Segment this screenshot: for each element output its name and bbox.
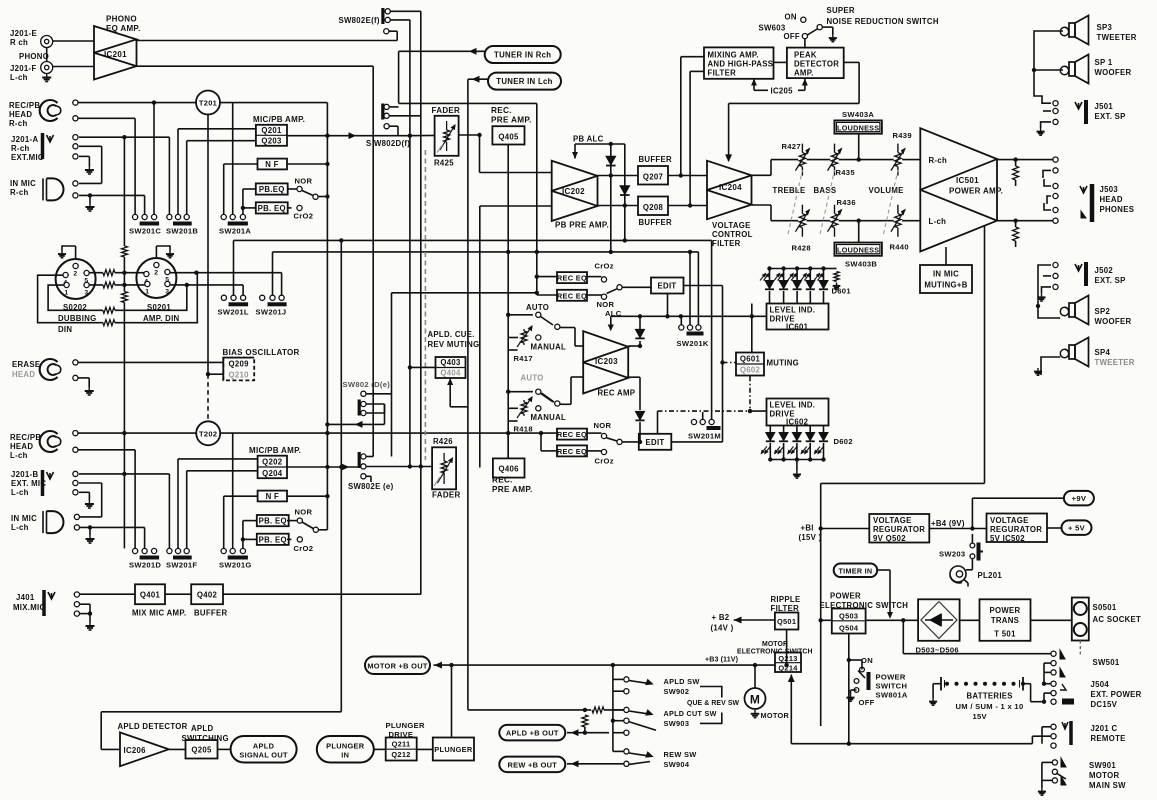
svg-text:IC501: IC501	[956, 176, 979, 185]
svg-text:IC205: IC205	[771, 87, 794, 96]
svg-text:HEAD: HEAD	[9, 110, 32, 119]
svg-text:+ 5V: + 5V	[1068, 524, 1086, 533]
svg-text:SW201D: SW201D	[129, 561, 161, 570]
svg-text:PB ALC: PB ALC	[573, 135, 604, 144]
svg-text:SW603: SW603	[759, 24, 786, 33]
svg-text:REC EQ: REC EQ	[557, 447, 587, 456]
svg-text:LEVEL IND.: LEVEL IND.	[770, 306, 816, 315]
svg-text:HEAD: HEAD	[10, 442, 33, 451]
svg-text:J201 C: J201 C	[1091, 724, 1118, 733]
svg-text:BUFFER: BUFFER	[639, 218, 672, 227]
svg-text:SW201B: SW201B	[166, 227, 198, 236]
svg-text:Q201: Q201	[261, 126, 282, 135]
svg-text:+ B2: + B2	[712, 613, 730, 622]
svg-text:SWITCH: SWITCH	[876, 682, 908, 691]
svg-text:DETECTOR: DETECTOR	[794, 60, 839, 69]
svg-text:R418: R418	[514, 425, 533, 434]
svg-text:2: 2	[154, 270, 158, 277]
svg-text:POWER AMP.: POWER AMP.	[949, 187, 1003, 196]
svg-text:OFF: OFF	[784, 32, 801, 41]
svg-text:REC/PB: REC/PB	[9, 101, 40, 110]
svg-text:SIGNAL OUT: SIGNAL OUT	[239, 750, 288, 759]
svg-text:SP4: SP4	[1095, 348, 1111, 357]
svg-text:1: 1	[145, 289, 149, 296]
svg-text:M: M	[750, 693, 760, 707]
svg-text:SP2: SP2	[1095, 307, 1111, 316]
svg-text:SW403B: SW403B	[845, 260, 877, 269]
svg-text:ERASE: ERASE	[12, 360, 40, 369]
svg-text:SW901: SW901	[1089, 761, 1116, 770]
svg-text:BATTERIES: BATTERIES	[967, 692, 1013, 701]
svg-text:PRE AMP.: PRE AMP.	[491, 116, 532, 125]
svg-text:SP 1: SP 1	[1095, 58, 1113, 67]
svg-text:SW203: SW203	[939, 550, 965, 559]
svg-text:VOLTAGE: VOLTAGE	[990, 516, 1029, 525]
svg-text:Q212: Q212	[391, 750, 410, 759]
svg-text:SW802E(f): SW802E(f)	[339, 16, 380, 25]
svg-text:CrO2: CrO2	[294, 544, 314, 553]
svg-text:R428: R428	[792, 244, 811, 253]
svg-text:J504: J504	[1091, 680, 1110, 689]
svg-text:AUTO: AUTO	[526, 303, 549, 312]
svg-text:SW201A: SW201A	[219, 227, 251, 236]
svg-text:BIAS OSCILLATOR: BIAS OSCILLATOR	[223, 348, 300, 357]
svg-text:REC EQ: REC EQ	[557, 430, 587, 439]
svg-text:REC EQ: REC EQ	[557, 274, 587, 283]
svg-text:FADER: FADER	[432, 106, 461, 115]
svg-text:ALC: ALC	[605, 309, 622, 318]
svg-text:5V IC502: 5V IC502	[990, 534, 1025, 543]
svg-text:REW +B OUT: REW +B OUT	[507, 760, 557, 769]
svg-text:NOR: NOR	[597, 300, 615, 309]
svg-text:S0201: S0201	[147, 303, 171, 312]
svg-text:QUE & REV SW: QUE & REV SW	[687, 700, 740, 707]
svg-text:IC601: IC601	[786, 323, 809, 332]
svg-text:R435: R435	[836, 168, 856, 177]
svg-text:FILTER: FILTER	[708, 69, 737, 78]
svg-text:Q504: Q504	[839, 624, 859, 633]
svg-text:REMOTE: REMOTE	[1091, 734, 1126, 743]
svg-text:MANUAL: MANUAL	[531, 343, 567, 352]
svg-text:APLD CUT SW: APLD CUT SW	[664, 709, 717, 718]
svg-text:APLD SW: APLD SW	[664, 677, 700, 686]
svg-text:Q402: Q402	[197, 591, 218, 600]
svg-text:DIN: DIN	[58, 325, 72, 334]
svg-text:L-ch: L-ch	[11, 488, 29, 497]
svg-text:CrOz: CrOz	[595, 262, 614, 271]
svg-text:SW201C: SW201C	[129, 227, 161, 236]
svg-text:IC202: IC202	[562, 187, 585, 196]
svg-text:Q601: Q601	[740, 355, 761, 364]
svg-text:BASS: BASS	[814, 186, 837, 195]
svg-text:R426: R426	[433, 437, 453, 446]
svg-text:PRE AMP.: PRE AMP.	[492, 485, 533, 494]
svg-text:R417: R417	[514, 354, 533, 363]
svg-text:POWER: POWER	[830, 592, 861, 601]
svg-text:EXT. SP: EXT. SP	[1095, 112, 1126, 121]
svg-text:CONTROL: CONTROL	[712, 230, 753, 239]
svg-text:MANUAL: MANUAL	[531, 413, 567, 422]
svg-text:MIX.MIC: MIX.MIC	[13, 603, 45, 612]
svg-text:R-ch: R-ch	[10, 188, 29, 197]
svg-text:PB.EQ: PB.EQ	[259, 185, 285, 194]
svg-text:N F: N F	[265, 160, 278, 169]
svg-text:R427: R427	[782, 142, 801, 151]
svg-text:SP3: SP3	[1097, 23, 1113, 32]
svg-text:FILTER: FILTER	[712, 239, 741, 248]
svg-text:MIC/PB AMP.: MIC/PB AMP.	[253, 115, 305, 124]
svg-text:Q405: Q405	[498, 133, 519, 142]
svg-text:SUPER: SUPER	[827, 6, 855, 15]
svg-text:VOLUME: VOLUME	[869, 186, 904, 195]
svg-text:TUNER IN Rch: TUNER IN Rch	[494, 51, 551, 60]
svg-text:SW201K: SW201K	[677, 339, 709, 348]
svg-text:REC/PB: REC/PB	[10, 433, 41, 442]
svg-text:R436: R436	[837, 198, 856, 207]
svg-text:CrO2: CrO2	[294, 212, 314, 221]
svg-text:IC204: IC204	[719, 183, 742, 192]
svg-text:Q404: Q404	[440, 369, 461, 378]
svg-text:Q207: Q207	[643, 173, 663, 182]
svg-text:TREBLE: TREBLE	[773, 186, 806, 195]
svg-text:Q214: Q214	[778, 664, 798, 673]
svg-text:T201: T201	[199, 99, 217, 108]
svg-text:S W802D(f): S W802D(f)	[366, 139, 410, 148]
svg-text:N F: N F	[266, 492, 279, 501]
svg-text:PHONES: PHONES	[1100, 205, 1135, 214]
svg-text:1: 1	[64, 290, 68, 297]
svg-text:D601: D601	[832, 287, 852, 296]
svg-text:MOTOR: MOTOR	[762, 641, 788, 648]
svg-text:APLD. CUE.: APLD. CUE.	[428, 330, 475, 339]
svg-text:Q406: Q406	[499, 465, 520, 474]
svg-text:NOR: NOR	[295, 508, 313, 517]
svg-text:DUBBING: DUBBING	[58, 314, 96, 323]
svg-text:3: 3	[165, 289, 169, 296]
svg-text:SW501: SW501	[1093, 658, 1120, 667]
svg-text:Q210: Q210	[229, 371, 250, 380]
svg-text:3: 3	[84, 290, 88, 297]
svg-text:T 501: T 501	[994, 630, 1016, 639]
svg-text:POWER: POWER	[876, 673, 906, 682]
svg-text:LEVEL IND.: LEVEL IND.	[770, 401, 816, 410]
svg-text:NOISE REDUCTION SWITCH: NOISE REDUCTION SWITCH	[827, 17, 939, 26]
svg-text:SW802 (D(e): SW802 (D(e)	[343, 380, 391, 389]
svg-text:CrOz: CrOz	[595, 457, 614, 466]
svg-text:R-ch: R-ch	[9, 119, 28, 128]
svg-text:D503~D506: D503~D506	[916, 646, 959, 655]
svg-text:J201-F: J201-F	[10, 64, 37, 73]
svg-text:RIPPLE: RIPPLE	[771, 595, 801, 604]
svg-text:ON: ON	[861, 656, 873, 665]
svg-text:J401: J401	[16, 593, 35, 602]
svg-text:R425: R425	[434, 159, 454, 168]
svg-text:MUTING: MUTING	[767, 359, 800, 368]
svg-text:PHONO: PHONO	[106, 15, 137, 24]
svg-text:PEAK: PEAK	[794, 51, 817, 60]
svg-text:SW902: SW902	[664, 687, 690, 696]
svg-text:EQ AMP.: EQ AMP.	[106, 24, 141, 33]
svg-text:Q208: Q208	[643, 203, 664, 212]
svg-text:PB. EQ: PB. EQ	[258, 204, 286, 213]
svg-text:TWEETER: TWEETER	[1095, 358, 1135, 367]
svg-text:REW SW: REW SW	[664, 750, 697, 759]
svg-text:MOTOR: MOTOR	[1089, 771, 1119, 780]
svg-text:SW201F: SW201F	[166, 561, 197, 570]
svg-text:D602: D602	[834, 437, 853, 446]
svg-text:AUTO: AUTO	[521, 374, 544, 383]
svg-text:PLUNGER: PLUNGER	[386, 721, 425, 730]
svg-text:Q501: Q501	[777, 617, 796, 626]
svg-text:PLUNGER: PLUNGER	[326, 741, 365, 750]
svg-text:SW403A: SW403A	[842, 110, 874, 119]
svg-text:IC206: IC206	[124, 746, 147, 755]
svg-text:MUTING+B: MUTING+B	[924, 281, 967, 290]
svg-text:Q213: Q213	[778, 654, 797, 663]
svg-text:R-ch: R-ch	[11, 144, 30, 153]
svg-text:APLD DETECTOR: APLD DETECTOR	[118, 722, 188, 731]
svg-text:Q203: Q203	[261, 137, 282, 146]
svg-text:REV MUTING: REV MUTING	[428, 340, 480, 349]
svg-text:REC EQ: REC EQ	[557, 291, 587, 300]
svg-text:IC602: IC602	[786, 418, 809, 427]
svg-text:PB. EQ: PB. EQ	[259, 517, 287, 526]
svg-text:Q403: Q403	[440, 358, 461, 367]
svg-text:EXT.MIC: EXT.MIC	[11, 153, 44, 162]
svg-text:TUNER IN Lch: TUNER IN Lch	[496, 77, 552, 86]
svg-text:IC201: IC201	[104, 50, 127, 59]
svg-text:VOLTAGE: VOLTAGE	[712, 221, 751, 230]
svg-text:WOOFER: WOOFER	[1095, 68, 1132, 77]
svg-text:L-ch: L-ch	[929, 217, 947, 226]
svg-text:REC AMP: REC AMP	[598, 389, 636, 398]
svg-text:SW903: SW903	[664, 719, 690, 728]
svg-text:R440: R440	[890, 243, 909, 252]
svg-text:EXT. MIC: EXT. MIC	[11, 479, 46, 488]
svg-text:PB PRE AMP.: PB PRE AMP.	[555, 221, 609, 230]
svg-text:Q205: Q205	[191, 746, 212, 755]
svg-text:J502: J502	[1095, 266, 1114, 275]
svg-text:2: 2	[73, 271, 77, 278]
svg-text:POWER: POWER	[990, 606, 1021, 615]
svg-text:EDIT: EDIT	[658, 282, 677, 291]
svg-text:AND HIGH-PASS: AND HIGH-PASS	[708, 60, 774, 69]
svg-text:EXT. SP: EXT. SP	[1095, 276, 1126, 285]
svg-text:Q211: Q211	[392, 740, 411, 749]
svg-text:T202: T202	[199, 429, 217, 438]
svg-text:+9V: +9V	[1072, 494, 1087, 503]
svg-text:PB. EQ: PB. EQ	[259, 535, 287, 544]
svg-text:(15V ): (15V )	[799, 533, 822, 542]
svg-text:IN MIC: IN MIC	[11, 514, 37, 523]
svg-text:SW802E (e): SW802E (e)	[348, 482, 394, 491]
svg-text:S0501: S0501	[1093, 603, 1117, 612]
svg-text:Q204: Q204	[262, 469, 283, 478]
svg-text:IN: IN	[341, 750, 349, 759]
svg-text:REGURATOR: REGURATOR	[873, 525, 925, 534]
svg-text:AMP. DIN: AMP. DIN	[143, 314, 180, 323]
svg-text:15V: 15V	[973, 712, 988, 721]
svg-text:SW201L: SW201L	[218, 307, 249, 316]
svg-text:ON: ON	[785, 13, 797, 22]
svg-text:AC SOCKET: AC SOCKET	[1093, 615, 1142, 624]
svg-text:TRANS: TRANS	[991, 616, 1019, 625]
svg-text:SW201J: SW201J	[256, 307, 287, 316]
svg-text:R439: R439	[893, 131, 912, 140]
svg-text:WOOFER: WOOFER	[1095, 317, 1132, 326]
svg-text:EDIT: EDIT	[646, 438, 665, 447]
svg-text:J201-E: J201-E	[10, 29, 37, 38]
svg-text:EXT. POWER: EXT. POWER	[1091, 690, 1142, 699]
svg-text:REC.: REC.	[491, 106, 512, 115]
svg-text:PL201: PL201	[978, 571, 1003, 580]
svg-text:L-ch: L-ch	[10, 73, 28, 82]
svg-text:REC.: REC.	[492, 476, 513, 485]
svg-text:L-ch: L-ch	[10, 451, 28, 460]
svg-text:MOTOR +B OUT: MOTOR +B OUT	[367, 661, 428, 670]
svg-text:J201-A: J201-A	[11, 135, 38, 144]
svg-text:BUFFER: BUFFER	[194, 609, 227, 618]
svg-text:S0202: S0202	[63, 303, 87, 312]
svg-text:LOUDNESS: LOUDNESS	[837, 123, 879, 132]
svg-text:R-ch: R-ch	[929, 156, 948, 165]
svg-text:IC203: IC203	[595, 357, 618, 366]
svg-text:IN MIC: IN MIC	[933, 270, 959, 279]
svg-text:Q209: Q209	[229, 360, 250, 369]
svg-text:TIMER IN: TIMER IN	[838, 566, 872, 575]
svg-text:+BI: +BI	[801, 524, 814, 533]
svg-text:SW201M: SW201M	[688, 432, 721, 441]
svg-text:+B4 (9V): +B4 (9V)	[931, 519, 965, 528]
svg-text:J501: J501	[1095, 102, 1114, 111]
svg-text:VOLTAGE: VOLTAGE	[873, 516, 912, 525]
svg-text:+B3 (11V): +B3 (11V)	[705, 656, 739, 664]
svg-text:MIX MIC AMP.: MIX MIC AMP.	[132, 609, 186, 618]
svg-text:OFF: OFF	[859, 698, 875, 707]
svg-text:(14V ): (14V )	[711, 624, 734, 633]
svg-text:MAIN SW: MAIN SW	[1089, 781, 1126, 790]
svg-text:SW904: SW904	[664, 760, 690, 769]
svg-text:MOTOR: MOTOR	[761, 711, 790, 720]
svg-text:R ch: R ch	[10, 38, 28, 47]
svg-text:NOR: NOR	[295, 177, 313, 186]
svg-text:Q503: Q503	[839, 612, 858, 621]
svg-text:PHONO: PHONO	[19, 52, 49, 61]
svg-text:HEAD: HEAD	[12, 370, 35, 379]
svg-text:PLUNGER: PLUNGER	[434, 745, 473, 754]
svg-text:AMP.: AMP.	[794, 69, 814, 78]
svg-text:LOUDNESS: LOUDNESS	[837, 245, 879, 254]
svg-text:HEAD: HEAD	[1100, 195, 1123, 204]
svg-text:BUFFER: BUFFER	[639, 155, 672, 164]
svg-text:SW801A: SW801A	[876, 691, 908, 700]
svg-text:NOR: NOR	[594, 421, 612, 430]
svg-text:SWITCHING: SWITCHING	[182, 734, 229, 743]
svg-text:APLD: APLD	[191, 724, 213, 733]
svg-text:Q202: Q202	[262, 458, 283, 467]
svg-text:9V Q502: 9V Q502	[873, 534, 906, 543]
svg-text:J201-B: J201-B	[11, 470, 38, 479]
svg-text:MIC/PB AMP.: MIC/PB AMP.	[249, 446, 301, 455]
svg-text:FADER: FADER	[432, 491, 461, 500]
svg-text:TWEETER: TWEETER	[1097, 33, 1137, 42]
svg-text:UM / SUM - 1 x 10: UM / SUM - 1 x 10	[956, 702, 1024, 711]
svg-text:REGURATOR: REGURATOR	[990, 525, 1042, 534]
svg-text:J503: J503	[1100, 185, 1119, 194]
svg-text:SW201G: SW201G	[219, 561, 252, 570]
svg-text:MIXING AMP.: MIXING AMP.	[708, 51, 759, 60]
svg-text:Q401: Q401	[140, 591, 161, 600]
svg-text:L-ch: L-ch	[11, 523, 29, 532]
svg-text:IN MIC: IN MIC	[10, 179, 36, 188]
svg-text:APLD: APLD	[253, 741, 275, 750]
svg-text:Q602: Q602	[740, 366, 761, 375]
svg-text:APLD +B OUT: APLD +B OUT	[506, 729, 559, 738]
svg-text:DC15V: DC15V	[1091, 700, 1118, 709]
